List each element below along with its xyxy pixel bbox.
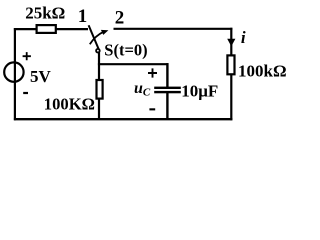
svg-text:uC: uC [134,80,151,98]
capacitor + polarity mark [148,68,157,77]
capacitor - polarity mark [149,108,155,110]
switch S(t=0): pivot circle [96,49,100,53]
wire: horizontal stub from middle branch to capacitor branch [98,63,169,65]
svg-text:i: i [241,28,246,47]
wire: middle branch vertical (switch pivot down to bottom wire) [98,53,100,120]
svg-text:2: 2 [115,7,125,28]
wire: left vertical wire [14,28,16,120]
source + polarity mark [23,52,31,60]
svg-text:S(t=0): S(t=0) [104,40,147,59]
resistor R3 100kΩ (vertical box, right branch) [227,55,234,74]
wire: top segment node 2 to top-right corner [114,28,233,30]
switch motion arrow (arc) [90,32,104,44]
svg-text:5V: 5V [30,67,52,86]
resistor R1 25kΩ (box) [37,25,56,33]
resistor R2 100KΩ (vertical box, middle branch) [97,80,103,99]
voltage source circle 5V [4,62,23,81]
svg-text:10μF: 10μF [181,82,218,101]
svg-text:100kΩ: 100kΩ [238,61,287,80]
switch blade [89,25,99,49]
wire: top-left segment from left corner to switch (node 1 side) [14,28,88,30]
current i arrowhead on right wire [227,39,235,47]
wire: capacitor branch lower segment [166,93,168,119]
source - polarity mark [23,92,28,94]
wire: right vertical wire [230,28,232,121]
capacitor C 10µF: top plate [154,87,181,89]
wire: capacitor branch upper segment [166,63,168,87]
wire: bottom wire [14,118,233,120]
svg-text:25kΩ: 25kΩ [25,3,65,22]
svg-text:1: 1 [78,6,88,27]
capacitor bottom plate [154,91,181,93]
switch motion arrowhead [101,30,109,35]
svg-text:100KΩ: 100KΩ [44,94,95,113]
